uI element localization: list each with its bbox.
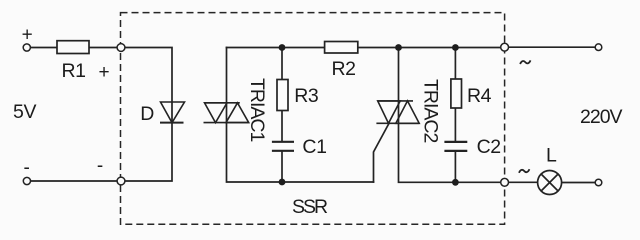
svg-text:L: L — [546, 145, 557, 167]
svg-text:R2: R2 — [332, 58, 356, 80]
svg-text:TRIAC1: TRIAC1 — [246, 78, 268, 142]
svg-text:D: D — [140, 103, 154, 125]
svg-text:C2: C2 — [477, 136, 501, 158]
svg-text:-: - — [97, 156, 103, 177]
svg-text:-: - — [24, 157, 30, 178]
svg-text:220V: 220V — [580, 106, 623, 128]
svg-text:+: + — [98, 62, 109, 83]
svg-text:R4: R4 — [467, 85, 492, 107]
svg-text:5V: 5V — [13, 101, 36, 123]
svg-text:R3: R3 — [294, 85, 318, 107]
svg-text:C1: C1 — [302, 136, 326, 158]
svg-text:SSR: SSR — [292, 196, 328, 218]
svg-text:TRIAC2: TRIAC2 — [420, 79, 442, 143]
svg-text:R1: R1 — [62, 60, 86, 82]
svg-text:+: + — [22, 25, 33, 46]
